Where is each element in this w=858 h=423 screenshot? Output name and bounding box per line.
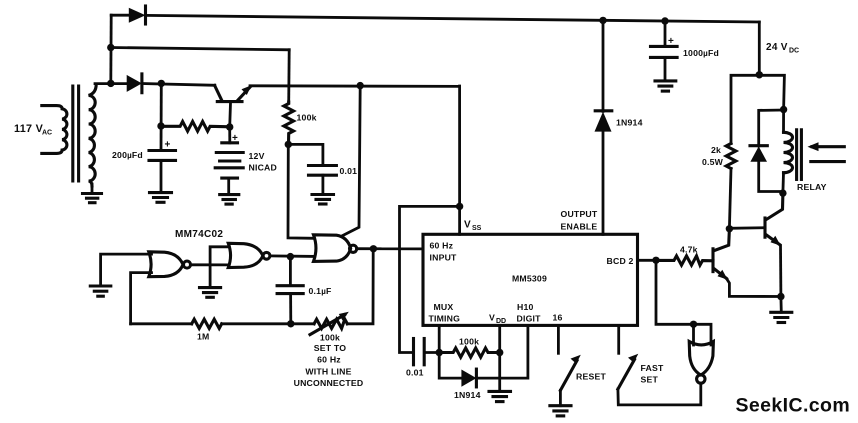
svg-text:+: +: [668, 36, 674, 47]
junction dot wire-1/1000uFd: [661, 17, 668, 24]
flyback diode (relay): [750, 110, 784, 192]
Q1 emitter with arrow: [238, 85, 252, 100]
wire rail tap down to gate3: [342, 86, 360, 236]
NOR gate G4 (fast set, pointing down): [689, 342, 713, 384]
junction dot BCD2 node: [652, 257, 659, 264]
ground under 200uFd: [150, 193, 172, 203]
svg-text:1000µFd: 1000µFd: [683, 48, 719, 58]
wire rail from secondary to diode D2: [95, 82, 128, 85]
junction dot Q2 collector node: [726, 225, 733, 232]
svg-text:SET: SET: [641, 375, 659, 385]
svg-text:DIGIT: DIGIT: [517, 313, 542, 323]
svg-text:100k: 100k: [459, 337, 479, 347]
junction dot 100k/0.01 node: [285, 141, 292, 148]
svg-text:SeekIC.com: SeekIC.com: [736, 395, 851, 417]
wire down to 200uFd node: [160, 83, 163, 149]
junction dot NICAD node: [226, 123, 233, 130]
ground under Q3 emitter: [771, 297, 792, 323]
label 24 VDC: [766, 42, 799, 55]
wire Q2 collector node to Q3 base: [729, 226, 765, 229]
junction dot feedback/0.1uF: [287, 320, 294, 327]
svg-text:NICAD: NICAD: [249, 162, 278, 172]
wire FAST SET arm to NOR4 output: [618, 383, 701, 405]
svg-text:DD: DD: [496, 318, 506, 325]
resistor (regulator base) between 200uFd and NICAD: [161, 122, 230, 132]
svg-text:24 V: 24 V: [766, 42, 788, 53]
G1 bottom input wire from feedback: [131, 273, 152, 324]
junction dot 0.1uF top: [287, 253, 294, 260]
junction dot Vss node: [456, 203, 463, 210]
capacitor 0.01 (mux timing, series): [414, 339, 440, 365]
wire Vss riser (rail corner down to IC top): [458, 86, 461, 234]
Q3 emitter with arrow: [766, 235, 781, 297]
label 12V NICAD: [249, 151, 278, 172]
svg-text:1N914: 1N914: [454, 390, 481, 400]
OUTPUT ENABLE label: [561, 209, 598, 231]
pot labels: [294, 333, 364, 389]
FAST SET pin wire: [617, 325, 620, 353]
resistor 2k 0.5W vertical: [702, 144, 736, 169]
ground under RESET: [550, 406, 571, 416]
svg-text:2k: 2k: [711, 145, 721, 155]
svg-text:0.01: 0.01: [406, 368, 424, 378]
Q2 emitter with arrow: [714, 269, 781, 297]
junction dot wire-2 tap: [107, 44, 114, 51]
svg-text:SS: SS: [472, 225, 482, 232]
diode D2 (half-wave rectifier): [127, 74, 142, 93]
wire mux node down to 1N914 diode: [439, 353, 461, 379]
resistor 100k (mux): [439, 337, 500, 358]
transformer T1 core: [73, 86, 79, 181]
svg-text:117 V: 117 V: [14, 123, 44, 135]
wire BCD2 node down to NOR4: [656, 260, 711, 345]
IC labels: [429, 241, 634, 326]
svg-text:100k: 100k: [320, 333, 340, 343]
transistor Q1 regulator: base bar: [217, 100, 242, 103]
svg-text:0.5W: 0.5W: [702, 157, 724, 167]
pin 16 wire: [557, 325, 560, 353]
svg-text:V: V: [489, 313, 495, 323]
junction dot VDD node: [496, 349, 503, 356]
resistor 4.7k: [656, 245, 713, 266]
svg-text:100k: 100k: [297, 113, 317, 123]
capacitor 0.01 (line filter): [309, 166, 337, 195]
potentiometer 100k: [310, 312, 349, 335]
wire 24VDC drop: [758, 22, 761, 75]
NOR4 input stub: [692, 324, 695, 345]
wire-2: AC sense line to 100k: [111, 48, 289, 50]
switch RESET arm: [560, 355, 580, 391]
svg-text:ENABLE: ENABLE: [561, 221, 598, 231]
wire 24V to relay branch: [759, 75, 784, 109]
svg-text:H10: H10: [517, 302, 534, 312]
wire pot to G3 output node: [347, 249, 373, 324]
svg-text:RELAY: RELAY: [797, 182, 827, 192]
wire BCD2 pin: [638, 259, 657, 262]
svg-text:0.1µF: 0.1µF: [309, 286, 332, 296]
svg-text:INPUT: INPUT: [430, 252, 458, 262]
svg-text:SET TO: SET TO: [314, 343, 346, 353]
OUTPUT ENABLE pin riser with 1N914 top diode: [595, 20, 612, 234]
junction dot after D2: [158, 80, 165, 87]
svg-text:16: 16: [553, 312, 563, 322]
diode D1 (24V rectifier): [129, 6, 146, 24]
svg-text:MM5309: MM5309: [512, 274, 547, 284]
label 200uFd: [112, 150, 143, 160]
wire-1 top: riser to diode D1: [111, 14, 129, 17]
svg-text:BCD 2: BCD 2: [607, 256, 634, 266]
junction dot mux timing node: [436, 349, 443, 356]
ground under 0.01: [312, 195, 334, 205]
svg-text:OUTPUT: OUTPUT: [561, 209, 598, 219]
transformer T1 primary winding: [42, 106, 67, 154]
Q3 base bar: [763, 218, 766, 237]
wire 100k node down to gate3 top input: [288, 144, 314, 238]
switch FAST SET arm: [618, 354, 638, 389]
svg-text:MM74C02: MM74C02: [175, 229, 223, 240]
Q1 base stem: [228, 103, 232, 127]
VDD pin wire down to ground: [498, 325, 501, 391]
svg-text:200µFd: 200µFd: [112, 150, 143, 160]
svg-text:1M: 1M: [197, 332, 209, 342]
resistor 100k (line sense) vertical: [284, 102, 317, 144]
ground under 1000uFd: [655, 81, 676, 91]
junction dot on rail at x=360: [357, 82, 364, 89]
wire-1 long top wire to 24V corner: [146, 15, 760, 22]
diode 1N914 (bottom): [461, 369, 476, 387]
capacitor 0.1uF: [277, 257, 303, 324]
junction dot relay bottom: [779, 189, 786, 196]
junction dot 24V split: [756, 71, 763, 78]
ground under transformer secondary: [83, 184, 102, 203]
wire G3 output to 60Hz INPUT pin: [357, 247, 423, 250]
junction dot at transformer/diode rail: [107, 80, 114, 87]
battery 12V NICAD: [215, 127, 243, 194]
wire RESET to ground: [559, 390, 562, 405]
wire 100k node to 0.01 cap: [288, 144, 323, 165]
svg-text:DC: DC: [789, 48, 799, 55]
wire Vss node left and down to series cap: [400, 206, 460, 352]
svg-text:60 Hz: 60 Hz: [317, 355, 341, 365]
wire 24V to 2k branch: [731, 75, 759, 143]
transistor Q3: collector from relay bottom: [766, 193, 783, 220]
ground under NICAD: [220, 195, 239, 205]
G2 input tie bar and ground: [200, 247, 229, 297]
NOR gate G1 body: [149, 252, 191, 277]
svg-text:+: +: [165, 140, 171, 151]
wire diode to H10 DIGIT pin: [476, 325, 528, 378]
IC U1 MM5309 box: [423, 234, 638, 325]
junction dot Q3 emitter/ground: [777, 293, 784, 300]
label FAST SET: [641, 363, 664, 385]
svg-text:TIMING: TIMING: [429, 313, 461, 323]
svg-text:MUX: MUX: [434, 302, 454, 312]
junction dot wire-1/1N914: [599, 17, 606, 24]
feedback wire with 1M resistor: [131, 322, 192, 325]
relay contact arrow: [808, 142, 845, 161]
svg-text:WITH LINE: WITH LINE: [305, 367, 351, 377]
relay core: [797, 130, 802, 180]
G1 top input wire to ground: [101, 254, 152, 286]
svg-text:+: +: [232, 133, 238, 144]
Vss label: [464, 220, 482, 233]
NOR gate G3 body: [314, 235, 357, 262]
rail wire from Q1 emitter to Vss corner: [250, 84, 460, 87]
label 117 VAC: [14, 123, 52, 137]
capacitor 200uFd: [149, 151, 176, 193]
wire 2k down to Q2 collector node: [729, 169, 731, 229]
svg-text:V: V: [464, 220, 471, 231]
resistor 1M: [192, 319, 222, 328]
svg-text:UNCONNECTED: UNCONNECTED: [294, 378, 364, 388]
wire vertical riser x=111 from top wire-1 down to rail: [109, 15, 112, 83]
svg-text:RESET: RESET: [576, 372, 606, 382]
svg-text:12V: 12V: [249, 151, 265, 161]
junction dot G3 output node: [370, 245, 377, 252]
Q2 collector: [714, 229, 730, 251]
relay coil: [783, 110, 793, 194]
wire D2 to transistor collector: [142, 84, 215, 86]
svg-text:0.01: 0.01: [340, 166, 358, 176]
capacitor 1000uFd: [651, 21, 678, 81]
svg-text:AC: AC: [42, 130, 52, 137]
wire 1M to pot: [222, 322, 314, 325]
wire G1 output to G2 input: [191, 263, 229, 266]
wire-2 drop to 100k resistor: [287, 50, 290, 103]
junction dot 200uFd node: [157, 122, 164, 129]
svg-text:4.7k: 4.7k: [680, 245, 698, 255]
junction dot NOR4 input tap: [690, 321, 697, 328]
wire G2 output to G3 bottom input: [270, 254, 314, 257]
Q1 collector: [215, 85, 222, 99]
svg-text:FAST: FAST: [641, 363, 664, 373]
transistor Q2: base bar: [711, 249, 714, 272]
ground under G1 input: [90, 286, 111, 296]
ground under VDD: [489, 391, 511, 401]
MUX TIMING pin wire: [438, 325, 441, 352]
svg-text:60 Hz: 60 Hz: [430, 241, 454, 251]
junction dot relay top: [780, 106, 787, 113]
transformer T1 secondary winding: [89, 84, 97, 186]
svg-text:1N914: 1N914: [616, 118, 643, 128]
NOR gate G2 body: [228, 243, 270, 267]
